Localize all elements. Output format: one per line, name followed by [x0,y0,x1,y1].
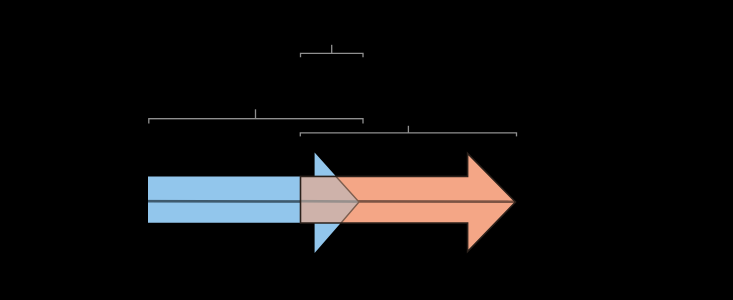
svg-text:Species A: Species A [222,91,289,108]
bracket: overlap (top small) [301,45,364,58]
overlap centerline (muted gray) [301,200,358,203]
salmon arrow fill [301,154,516,252]
bracket: blue arrow span (left) [149,109,363,123]
bracket: salmon arrow span (right) [300,126,516,137]
muted blue-head oblique edges inside overlap [336,176,359,223]
svg-text:Overlap: Overlap [305,27,358,44]
blue centerline [148,200,358,203]
svg-text:Species B: Species B [375,108,443,125]
overlap region fill (salmon body over blue arrow) [301,176,360,223]
salmon centerline [301,200,515,203]
salmon outline (dark, drawn on top) [301,154,516,252]
blue arrow fill [148,153,359,254]
